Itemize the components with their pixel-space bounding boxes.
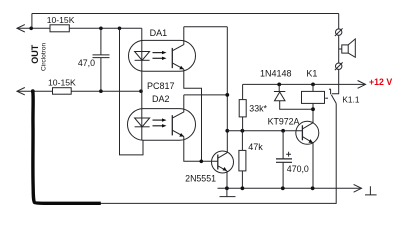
transistor Q1 2N5551 circle [212, 151, 234, 173]
svg-text:2N5551: 2N5551 [185, 174, 216, 184]
transistor Q1 collector diagonal [218, 153, 228, 159]
wire top rail drop to speaker [338, 14, 340, 29]
arrow +12V [358, 81, 366, 89]
wire 47k top lead [241, 131, 243, 151]
svg-text:PC817: PC817 [147, 81, 175, 91]
transistor DA2 collector [172, 95, 184, 118]
wire +12V rail [243, 83, 366, 85]
wire Q1 emitter to ground rail [226, 171, 228, 188]
speaker horn [348, 39, 355, 57]
diode DA1 LED cathode bar [135, 59, 150, 61]
node junction C2 bottom [281, 186, 285, 190]
node junction DA1 cathode / DA2 anode [139, 89, 143, 93]
node junction bypass branch [118, 27, 122, 31]
resistor R2 10-15K [53, 88, 72, 95]
wire DA2 LED vertical [141, 91, 143, 140]
wire DA1 LED vertical [141, 28, 143, 91]
transistor DA2 emitter [172, 130, 184, 136]
capacitor C1 plates [93, 55, 110, 58]
transistor Q2 collector diagonal [302, 109, 313, 129]
wire 33k bottom lead [242, 117, 244, 131]
svg-text:470,0: 470,0 [287, 164, 309, 174]
node junction diode top [277, 83, 281, 87]
arrow upper OUT terminal [17, 25, 25, 32]
svg-text:1N4148: 1N4148 [260, 69, 292, 79]
capacitor C2 plates [276, 159, 292, 162]
svg-text:47,0: 47,0 [78, 58, 95, 68]
switch K1.1 mechanical link dash [325, 97, 328, 99]
svg-text:OUT: OUT [30, 44, 40, 64]
node junction capacitor C1 bottom [99, 89, 103, 93]
svg-text:+12 V: +12 V [369, 77, 392, 87]
wire bypass line (top line to DA2 LED cathode) [120, 28, 144, 155]
relay K1 coil [302, 91, 325, 103]
wire DA2 emitter to 2N5551 base [184, 137, 218, 162]
speaker body [342, 45, 348, 53]
diode VD1 1N4148 top lead [278, 84, 280, 91]
capacitor C1 47,0 leads [100, 28, 102, 91]
wire lower input line [17, 90, 141, 92]
wire base line to KT972A [227, 130, 302, 132]
arrow lower OUT terminal [17, 88, 25, 95]
svg-text:10-15K: 10-15K [47, 15, 75, 25]
wire DA1 collector box to bus [184, 26, 228, 28]
wire left riser from top rail to upper input line [31, 14, 33, 29]
node junction Q2 emitter [311, 186, 315, 190]
transistor Q2 emitter diagonal [302, 137, 313, 143]
node junction Q1 emitter [225, 186, 229, 190]
op-amp DA1 optocoupler body [129, 40, 196, 71]
wire ground rail [218, 187, 362, 189]
transistor DA1 emitter [172, 63, 184, 69]
diode VD1 bottom lead [280, 101, 313, 110]
ground symbol right [365, 186, 377, 195]
arrow ground rail [354, 184, 362, 192]
wire terminal 2 down to switch [332, 69, 339, 93]
svg-text:DA2: DA2 [152, 94, 170, 104]
wire stub to speaker [339, 48, 342, 50]
svg-text:10-15K: 10-15K [48, 78, 76, 88]
label + polarity [286, 152, 291, 157]
diode DA2 LED triangle [135, 118, 150, 127]
wire DA1 emitter chain [184, 69, 202, 161]
wire 33k top lead from +12V corner [242, 84, 244, 99]
arrow DA2 light arrow 2 [153, 125, 163, 127]
switch K1.1 arm [331, 95, 336, 104]
capacitor C2 470,0 top lead [282, 131, 284, 159]
wire switch arm down to return line [335, 103, 337, 203]
wire relay top lead [312, 84, 314, 91]
diode DA1 LED triangle [135, 52, 150, 61]
wire DA2 collector to bus [184, 94, 228, 96]
node junction capacitor C1 top [99, 27, 103, 31]
node junction relay top [311, 83, 315, 87]
capacitor C2 bottom lead [282, 162, 284, 188]
transistor DA2 phototransistor base bar [171, 115, 173, 135]
wire collector bus [226, 27, 228, 153]
wire relay bottom lead [312, 103, 314, 109]
diode DA2 LED cathode bar [135, 126, 150, 128]
transistor Q1 emitter diagonal [218, 166, 227, 171]
switch K1.1 fixed contact hook [329, 89, 331, 94]
transistor Q2 base bar [301, 125, 303, 140]
wire thick hand-drawn return [33, 92, 101, 204]
node junction relay bottom / Q2 collector [311, 107, 315, 111]
node junction upper riser [29, 27, 33, 31]
node junction 470uF branch [281, 129, 285, 133]
node junction thick wire start [31, 89, 35, 93]
resistor R1 10-15K [50, 25, 69, 32]
wire top rail [32, 13, 339, 15]
arrow DA1 light arrow 2 [153, 57, 163, 59]
svg-text:47k: 47k [248, 142, 263, 152]
terminal circle 2 [336, 63, 342, 69]
svg-text:Circlotron: Circlotron [41, 42, 48, 71]
node junction bus / DA2 collector [225, 93, 229, 97]
svg-text:KT972A: KT972A [268, 116, 300, 126]
svg-text:33k*: 33k* [249, 103, 267, 113]
svg-text:K1: K1 [306, 69, 317, 79]
svg-text:DA1: DA1 [150, 28, 168, 38]
wire upper input line [17, 27, 142, 29]
arrow DA1 light arrow 1 [153, 52, 163, 54]
transistor Q2 KT972A circle [296, 121, 319, 144]
svg-text:K1.1: K1.1 [342, 95, 359, 105]
node junction emitter chain meets base line [200, 160, 204, 164]
wire 47k bottom lead [241, 171, 243, 188]
terminal circle 1 [336, 29, 342, 35]
node junction 33k/47k column [241, 129, 245, 133]
node junction bus / base line [225, 129, 229, 133]
diode VD1 cathode bar [274, 91, 285, 93]
ground symbol at rail [220, 188, 236, 196]
node junction 47k bottom [241, 186, 245, 190]
arrow DA2 light arrow 1 [153, 119, 163, 121]
transistor Q1 base bar [217, 155, 219, 170]
wire Q2 emitter to ground rail [312, 143, 314, 188]
resistor R3 33k [239, 100, 246, 117]
wire return line [101, 202, 337, 204]
transistor DA1 phototransistor base bar [171, 48, 173, 68]
op-amp DA2 optocoupler body [128, 109, 196, 141]
diode VD1 triangle [275, 92, 286, 101]
transistor DA1 collector [172, 27, 184, 51]
resistor R4 47k [239, 150, 246, 171]
wire between terminals [338, 35, 340, 63]
